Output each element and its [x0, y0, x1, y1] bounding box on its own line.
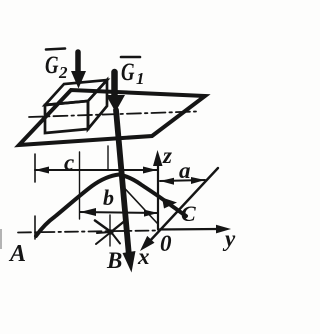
c dimension line with arrows — [35, 167, 157, 174]
svg-text:0: 0 — [160, 231, 172, 256]
svg-text:y: y — [222, 226, 236, 251]
svg-text:G: G — [45, 52, 59, 79]
point B blob — [108, 229, 113, 234]
plate dash-dot centerline — [29, 112, 196, 118]
svg-text:G: G — [121, 59, 135, 86]
svg-text:2: 2 — [58, 63, 68, 82]
plate (rectangular slab in oblique view) — [19, 90, 205, 145]
dash-dot line A - B - O — [18, 231, 157, 233]
curved rod (arc) from A up over to C — [36, 175, 186, 237]
svg-text:B: B — [106, 248, 122, 273]
box right face — [88, 80, 107, 129]
z axis — [153, 150, 163, 229]
c dimension extension line at A (x=35) — [34, 154, 36, 182]
svg-text:C: C — [181, 201, 196, 226]
G1 line of action (thick, down to arrow near B) — [116, 110, 136, 273]
a dimension line with arrows — [160, 177, 205, 185]
extension line below plate centre (x=108) — [107, 146, 109, 170]
force G2 arrow — [71, 52, 86, 89]
short leader segment below apex — [123, 187, 157, 224]
svg-text:A: A — [8, 241, 26, 267]
svg-text:b: b — [103, 185, 114, 210]
star / point B rays — [95, 215, 124, 246]
svg-text:a: a — [179, 158, 191, 183]
b extension line (G2 action line, x=80) — [79, 152, 81, 219]
box (load G2) front face — [45, 101, 88, 133]
box top face — [45, 80, 107, 105]
svg-text:c: c — [64, 150, 74, 175]
x axis (45-degree line through O, extended up-right) — [140, 168, 218, 251]
svg-text:1: 1 — [136, 69, 145, 88]
arrow blob on x-line at crossing with rod near C — [162, 198, 177, 209]
G1 label overbar — [121, 56, 140, 59]
svg-text:x: x — [137, 244, 150, 269]
b dimension line with arrows — [80, 208, 158, 217]
G2 label overbar — [46, 49, 65, 50]
force G1 arrow — [106, 72, 125, 112]
y axis — [158, 225, 231, 234]
scan smudge at left edge — [0, 229, 2, 249]
svg-text:z: z — [162, 143, 172, 168]
